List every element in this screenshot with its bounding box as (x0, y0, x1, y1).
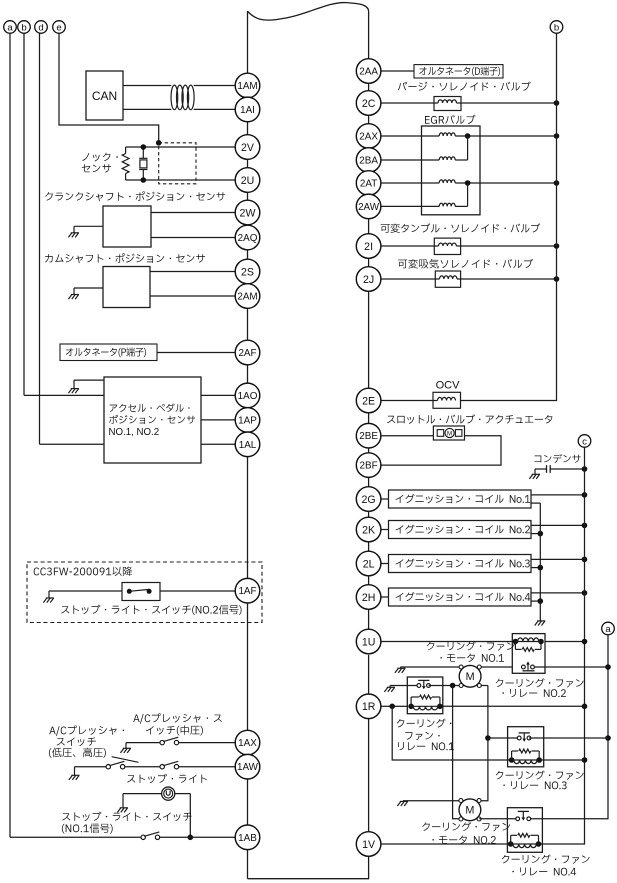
svg-text:1AB: 1AB (238, 833, 257, 844)
svg-text:1AL: 1AL (239, 440, 257, 451)
svg-text:CAN: CAN (92, 89, 117, 103)
svg-text:e: e (56, 22, 61, 33)
svg-text:2K: 2K (362, 524, 375, 536)
svg-text:c: c (582, 436, 587, 447)
svg-text:2J: 2J (363, 274, 374, 286)
svg-text:2AM: 2AM (237, 292, 257, 303)
svg-text:1AF: 1AF (238, 586, 256, 597)
svg-text:2BF: 2BF (360, 461, 378, 472)
svg-text:1R: 1R (362, 701, 376, 713)
svg-text:a: a (7, 22, 13, 33)
svg-text:2AW: 2AW (358, 202, 380, 213)
svg-text:M: M (465, 805, 474, 817)
svg-text:2AT: 2AT (360, 179, 377, 190)
svg-text:2S: 2S (241, 266, 254, 278)
svg-text:1AI: 1AI (240, 105, 255, 116)
svg-text:1AX: 1AX (238, 738, 257, 749)
svg-text:2L: 2L (363, 558, 375, 570)
svg-text:2W: 2W (240, 207, 256, 219)
svg-text:1AM: 1AM (237, 81, 257, 92)
svg-text:2AF: 2AF (238, 348, 256, 359)
svg-text:2AQ: 2AQ (238, 233, 258, 244)
svg-text:b: b (554, 22, 559, 33)
svg-text:2BA: 2BA (359, 156, 378, 167)
svg-text:a: a (605, 624, 611, 635)
svg-text:OCV: OCV (436, 379, 461, 391)
svg-text:1AP: 1AP (238, 415, 257, 426)
svg-text:2BE: 2BE (359, 431, 378, 442)
svg-text:d: d (38, 22, 43, 33)
svg-text:1V: 1V (362, 839, 376, 851)
svg-text:1AO: 1AO (238, 391, 258, 402)
svg-text:2C: 2C (362, 98, 376, 110)
svg-text:2U: 2U (241, 175, 255, 187)
svg-text:2AX: 2AX (359, 132, 378, 143)
svg-text:2E: 2E (362, 395, 375, 407)
svg-text:2I: 2I (364, 241, 373, 253)
svg-text:b: b (21, 22, 26, 33)
svg-text:2AA: 2AA (359, 67, 378, 78)
svg-text:1AW: 1AW (237, 762, 259, 773)
svg-text:1U: 1U (362, 636, 376, 648)
svg-text:M: M (466, 671, 475, 683)
svg-text:2H: 2H (362, 592, 376, 604)
svg-text:NO.1, NO.2: NO.1, NO.2 (109, 427, 160, 438)
svg-text:M: M (447, 430, 452, 437)
svg-text:2V: 2V (241, 142, 255, 154)
svg-text:2G: 2G (362, 494, 376, 506)
